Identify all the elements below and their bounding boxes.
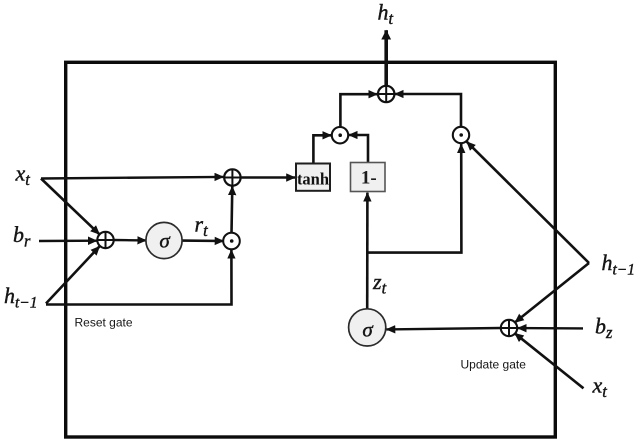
wire tanh box up then right to product node P2 xyxy=(313,135,331,163)
wire b_r to sum node S2 xyxy=(39,239,97,242)
svg-text:ht−1: ht−1 xyxy=(4,283,38,312)
wire sum node S2 to sigma SG1 xyxy=(113,239,146,242)
1- box xyxy=(351,163,386,192)
wire h_t-1 horizontal then up to product node P1 xyxy=(46,250,232,305)
svg-text:σ: σ xyxy=(159,229,171,253)
svg-text:1-: 1- xyxy=(361,168,377,189)
sum node S4 (update gate adder) xyxy=(501,320,517,336)
product node P1 (reset multiply) xyxy=(223,233,240,250)
wire sigma SG1 to product node P1 (r_t) xyxy=(182,239,224,242)
wire h_t-1 right upper diagonal to product node P3 xyxy=(467,142,589,263)
product node P2 (left multiply) xyxy=(332,127,348,143)
wire sum node S3 up to h_t output xyxy=(384,30,388,86)
wire product node P1 up to sum node S1 xyxy=(230,186,233,233)
cell boundary box xyxy=(66,62,556,437)
wire x_t diagonal to sum node S2 xyxy=(41,179,100,235)
wire h_t-1 diagonal to sum node S2 xyxy=(46,246,100,303)
svg-text:br: br xyxy=(13,222,31,251)
sigma SG1 (reset gate sigmoid) xyxy=(146,222,182,258)
svg-text:ht−1: ht−1 xyxy=(602,250,636,279)
sum node S2 (reset gate adder) xyxy=(97,232,113,248)
sum node S3 (output adder) xyxy=(378,86,394,102)
svg-text:xt: xt xyxy=(592,373,608,402)
wire sigma SG2 up to 1- box (z_t) xyxy=(366,193,369,310)
wire 1- box up then left to product node P2 xyxy=(349,135,368,162)
wire product node P3 up then left to sum node S3 xyxy=(395,94,461,127)
svg-text:tanh: tanh xyxy=(297,169,329,188)
wire h_t-1 right lower diagonal to sum node S4 xyxy=(515,263,589,323)
wire sum node S4 to sigma SG2 xyxy=(386,328,501,329)
wire sum node S1 to tanh box xyxy=(241,176,296,178)
sigma SG2 (update gate sigmoid) xyxy=(349,309,386,346)
wire x_t to sum node S1 (horizontal) xyxy=(41,177,224,179)
wire product node P2 up then right to sum node S3 xyxy=(340,94,377,127)
wire b_z to sum node S4 xyxy=(518,327,584,330)
svg-text:σ: σ xyxy=(362,318,374,342)
wire z_t branch right then up to product node P3 xyxy=(367,144,461,253)
svg-text:ht: ht xyxy=(378,0,394,28)
svg-text:bz: bz xyxy=(595,314,613,343)
sum node S1 (x_t + r_t*h_t-1) xyxy=(224,169,240,185)
svg-text:Reset gate: Reset gate xyxy=(75,316,133,330)
svg-text:Update gate: Update gate xyxy=(461,358,527,372)
svg-text:rt: rt xyxy=(195,212,209,241)
svg-text:zt: zt xyxy=(372,269,387,298)
tanh box xyxy=(296,164,330,191)
product node P3 (right multiply) xyxy=(453,127,469,143)
svg-text:xt: xt xyxy=(15,161,31,190)
wire x_t bottom-right diagonal to sum node S4 xyxy=(515,333,584,388)
